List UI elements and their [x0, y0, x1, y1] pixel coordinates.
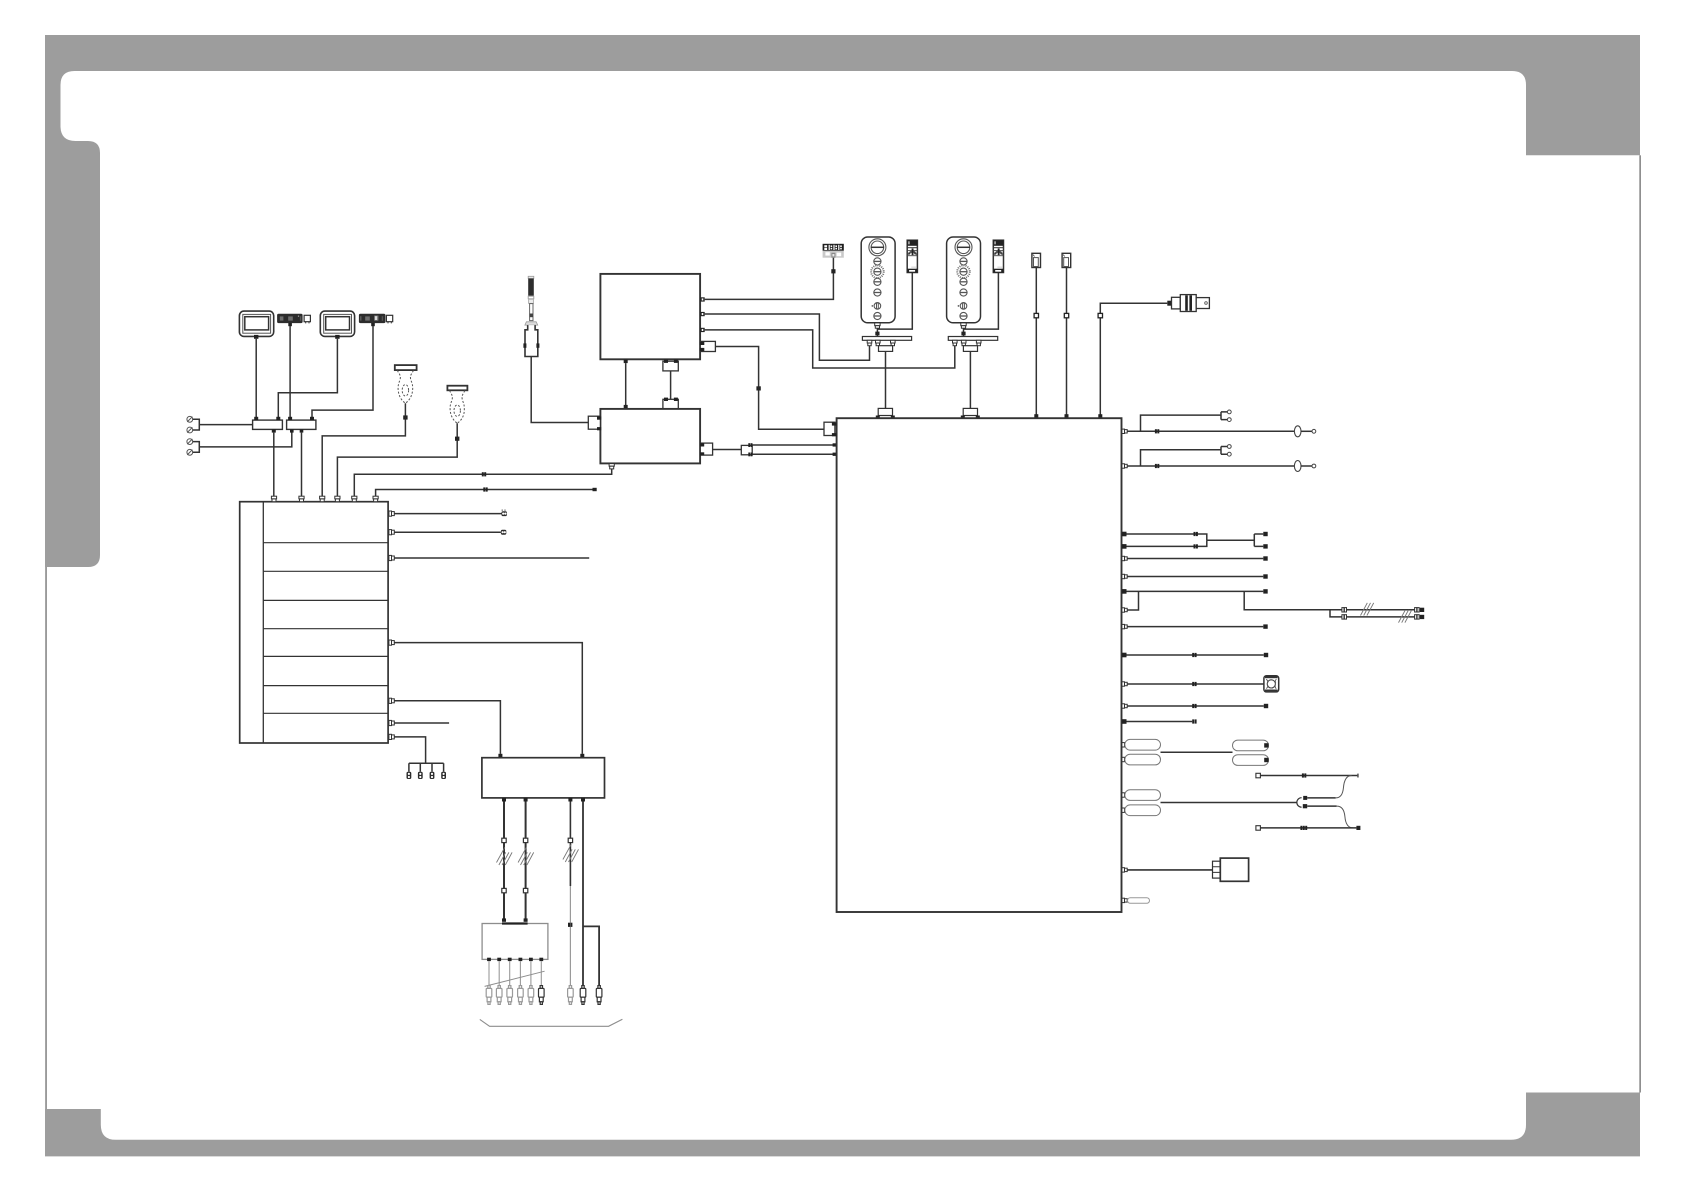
- pin A: [1122, 429, 1127, 433]
- sheath capsule O: [1128, 898, 1150, 904]
- U2 right connector: [700, 443, 713, 455]
- sheath capsule 1d: [1233, 755, 1269, 766]
- connector: [502, 838, 506, 842]
- branch G down to twin leads: [1244, 591, 1342, 609]
- remote bus bar 2: [948, 337, 997, 341]
- wire lamp B end: [1301, 465, 1312, 467]
- pin O: [1122, 898, 1127, 902]
- fan motor: [1264, 676, 1279, 692]
- junction terminal: [875, 332, 879, 336]
- bus 1 terminal 3: [891, 340, 896, 345]
- wire monitor M2 to box A: [278, 339, 337, 418]
- connector lower lead: [1342, 615, 1347, 619]
- wire pin J: [1127, 654, 1264, 656]
- lamp B: [1294, 461, 1301, 472]
- wire between connectors: [670, 371, 672, 399]
- spark plug cap light 3: [507, 986, 513, 1005]
- spark plug cap light 5: [528, 986, 534, 1005]
- spark plug cap light w3: [568, 986, 574, 1005]
- connector: [523, 838, 527, 842]
- wire harness pin to terminal: [394, 513, 501, 515]
- wire box B to harness box pin 2: [301, 433, 303, 497]
- Y-splitter connector: [1297, 776, 1353, 828]
- terminal F: [1263, 574, 1267, 578]
- relay box bottom terminals: [502, 798, 585, 802]
- tuner box top pin terminal: [624, 405, 628, 409]
- bus 1 terminal 2: [876, 340, 881, 345]
- sheath capsule 2a: [1125, 790, 1161, 801]
- connector on wire J: [1192, 653, 1196, 657]
- connector upper lead: [1342, 608, 1347, 612]
- display keypad: [823, 244, 844, 258]
- terminal: [498, 754, 502, 758]
- U1 right connector: [700, 341, 715, 351]
- wire antenna to tuner box 2: [531, 357, 588, 423]
- U2 bottom pin: [609, 464, 614, 469]
- connector on F1 wire: [1034, 313, 1038, 317]
- wire buzzer BZ2 to harness box pin 4: [337, 423, 457, 496]
- relay box: [482, 758, 605, 798]
- wire harness box pin 6 stub: [376, 490, 593, 497]
- terminal F1: [1034, 414, 1038, 418]
- pin I: [1122, 624, 1127, 628]
- terminal sheath 1 upper: [1264, 743, 1268, 747]
- wire pin E: [1127, 558, 1263, 560]
- pin H: [1122, 608, 1127, 612]
- terminal: [502, 918, 506, 921]
- remote control R1: [861, 237, 895, 323]
- pin sheath pair 2 upper pin: [1122, 793, 1125, 797]
- wire lamp A end: [1301, 430, 1312, 432]
- U1 right pin 3: [700, 328, 704, 332]
- R1 bottom stub: [875, 323, 880, 328]
- power module box: [1220, 858, 1248, 881]
- spark plug cap dark 6: [539, 986, 545, 1005]
- bus 1 shorting link: [879, 346, 893, 352]
- pin G: [1122, 589, 1127, 594]
- sheath capsule 1b: [1125, 754, 1161, 765]
- terminal: [524, 918, 528, 921]
- pin F: [1122, 574, 1127, 578]
- wire P1 to box A: [193, 419, 253, 430]
- sensor module F1: [1032, 253, 1041, 267]
- wire harness to relay box top right: [394, 643, 582, 754]
- wire P2 to box B: [193, 432, 292, 452]
- branch wire to fork B: [1141, 450, 1222, 466]
- wire sheath 2: [1161, 802, 1298, 804]
- wire pin M: [1127, 721, 1193, 723]
- bus 2 plug connector: [961, 408, 980, 418]
- sheath capsule 2b: [1125, 805, 1161, 816]
- pin D: [1122, 544, 1127, 549]
- wire U2 bottom to harness box pin 5: [354, 469, 611, 497]
- power module plug: [1213, 861, 1221, 878]
- pin M: [1122, 719, 1127, 724]
- wire R2 to bus bar 2: [963, 328, 965, 336]
- bus 2 terminal 1: [953, 340, 958, 345]
- wire pin F: [1127, 576, 1263, 578]
- terminal sheath 1 lower: [1264, 758, 1268, 762]
- connector on keypad wire: [831, 269, 835, 273]
- pin B: [1122, 464, 1127, 468]
- wire pin B to lamp: [1127, 465, 1294, 467]
- wire U1 connector to main unit left connector: [715, 347, 824, 430]
- wire U1 pin 3 to remote bus 2: [705, 330, 955, 368]
- wire keypad to U1 pin 1: [705, 258, 834, 300]
- bus 1 plug connector: [876, 408, 895, 418]
- pin L: [1122, 704, 1127, 708]
- end connector upper: [1415, 608, 1425, 612]
- wire U2 to inline connector: [713, 449, 742, 451]
- buzzer BZ2: [447, 386, 467, 424]
- spark plug cap light 1: [486, 986, 492, 1005]
- connector on coax wire: [1098, 313, 1102, 317]
- end terminal: [593, 488, 597, 491]
- wire harness pin to terminal: [394, 531, 501, 533]
- terminal rings: [501, 530, 506, 535]
- terminal L: [1264, 704, 1268, 708]
- lamp socket pair P1: [187, 416, 193, 433]
- connector: [502, 888, 506, 892]
- spark plug cap dark 2: [596, 986, 602, 1005]
- ignition wire 1: [503, 802, 505, 922]
- connector on wire A: [1155, 429, 1159, 433]
- junction box B: [287, 417, 316, 433]
- wire coax jack to main unit: [1100, 303, 1167, 415]
- wire D2 to R2 wire: [964, 273, 999, 330]
- branch wire to fork A: [1141, 415, 1222, 431]
- U1 right pin 2: [700, 312, 704, 316]
- inline connector: [741, 443, 752, 456]
- connector on wire L: [1192, 704, 1196, 708]
- long stub wire: [394, 557, 589, 559]
- Y-cable wire 1: [1256, 773, 1359, 778]
- U1 bottom pin: [624, 360, 628, 364]
- bus 2 terminal 2: [961, 340, 966, 345]
- wire bus 2 link to main unit: [969, 351, 971, 408]
- engine bracket: [480, 1019, 623, 1026]
- main unit left connector: [824, 422, 837, 436]
- connector on wire C: [1194, 532, 1198, 536]
- wire sheath 1: [1161, 751, 1233, 753]
- antenna assembly: [523, 276, 539, 356]
- terminal coax: [1098, 414, 1102, 418]
- remote bus bar 1: [862, 337, 911, 341]
- fork B: [1221, 445, 1231, 457]
- hatch marks: [497, 847, 513, 865]
- wire box A to harness box pin 1: [273, 433, 275, 497]
- wire pin N to power module: [1127, 869, 1212, 871]
- harness junction box: [240, 502, 388, 743]
- wire upper lead: [1347, 609, 1417, 611]
- bus 1 terminal 1: [867, 340, 872, 345]
- harness box top pins: [271, 496, 378, 501]
- wire lower lead: [1347, 616, 1417, 618]
- wire sensor bar S2 to box B: [312, 326, 373, 418]
- bus 2 terminal 3: [976, 340, 981, 345]
- lamp A: [1294, 426, 1301, 437]
- wire F1 to main unit: [1035, 268, 1037, 415]
- wire U1 pin 2 to remote bus 1: [705, 314, 870, 360]
- terminal M: [1192, 719, 1196, 723]
- U1 right pin 1: [700, 297, 704, 301]
- wire D1 to R1 wire: [877, 273, 912, 330]
- end terminal ring: [1312, 464, 1316, 468]
- buzzer BZ1: [395, 365, 417, 403]
- terminal: [580, 754, 584, 758]
- pin sheath pair 1 upper pin: [1122, 743, 1125, 747]
- pin K: [1122, 682, 1127, 686]
- lamp socket pair P2: [187, 439, 193, 455]
- connector: [568, 838, 572, 842]
- coax jack J1: [1167, 295, 1209, 312]
- pin sheath pair 2 lower pin: [1122, 808, 1125, 812]
- monitor M1: [239, 311, 273, 339]
- terminal J: [1264, 653, 1268, 657]
- ignition wire 2: [525, 802, 527, 922]
- connector: [523, 888, 527, 892]
- IR sensor bar S1: [277, 314, 310, 326]
- merged wire CD: [1207, 534, 1264, 546]
- plug wire 3: [569, 802, 571, 887]
- spark plug cap dark 1: [580, 986, 586, 1005]
- terminal: [833, 453, 837, 456]
- sheath capsule 1c: [1233, 740, 1269, 751]
- terminal E: [1263, 556, 1267, 560]
- terminal D: [1263, 544, 1267, 548]
- terminal C: [1263, 532, 1267, 536]
- slash over leads: [485, 971, 545, 986]
- connector on wire D: [1194, 544, 1198, 548]
- plug wire 4: [583, 802, 599, 989]
- Y-cable wire 3: [1256, 826, 1361, 831]
- wire F2 to main unit: [1066, 268, 1068, 415]
- end connector lower: [1415, 615, 1425, 619]
- wire pin A to lamp: [1127, 430, 1294, 432]
- terminal I: [1263, 624, 1267, 628]
- branch G to pin H: [1127, 591, 1138, 610]
- connector: [568, 923, 572, 927]
- fuse block: [482, 924, 548, 960]
- pin N: [1122, 868, 1127, 872]
- wire pin K to fan: [1127, 683, 1264, 685]
- control box U1: [600, 274, 700, 359]
- monitor M2: [320, 311, 354, 339]
- U2 left connector: [588, 416, 601, 430]
- hatch marks upper: [1361, 603, 1374, 616]
- wire harness to 4-way comb: [394, 737, 443, 772]
- terminal F2: [1065, 414, 1069, 418]
- wires inline connector to main unit: [753, 445, 834, 454]
- hatch marks lower: [1399, 610, 1412, 623]
- connector on F2 wire: [1064, 313, 1068, 317]
- wire pin G: [1127, 590, 1264, 592]
- terminal rings: [502, 510, 507, 517]
- wire pin L: [1127, 705, 1264, 707]
- IR sensor bar S2: [359, 314, 393, 326]
- pin sheath pair 1 lower pin: [1122, 757, 1125, 761]
- fuse block bottom terminals: [487, 958, 543, 961]
- fuse block lead wires: [489, 961, 541, 986]
- connector on wire: [482, 472, 486, 476]
- bus 2 shorting link: [963, 346, 977, 352]
- comb pin terminals: [407, 772, 447, 779]
- tuner box top connector: [663, 398, 678, 409]
- connector on wire K: [1192, 682, 1196, 686]
- wire monitor M1 to box A: [255, 339, 257, 418]
- stub wire: [394, 722, 449, 724]
- remote side unit D2: [993, 240, 1003, 272]
- tuner box U2: [600, 409, 700, 464]
- spark plug cap light 4: [518, 986, 524, 1005]
- sheath capsule 1a: [1125, 739, 1161, 750]
- wire pin D: [1127, 540, 1207, 546]
- terminal: [833, 443, 837, 446]
- wire buzzer BZ1 to harness box pin 3: [322, 403, 405, 496]
- remote side unit D1: [907, 240, 917, 272]
- pin E: [1122, 556, 1127, 560]
- wire U1 to tuner box: [625, 363, 627, 407]
- fork A: [1221, 410, 1231, 422]
- wire bus 1 link to main unit: [885, 351, 887, 408]
- end terminal ring: [1312, 429, 1316, 433]
- terminal G: [1263, 589, 1267, 593]
- spark plug cap light 2: [496, 986, 502, 1005]
- junction box A: [253, 417, 283, 433]
- pin C: [1122, 532, 1127, 537]
- wire harness to relay box top left: [394, 701, 500, 754]
- wire pin I: [1127, 626, 1263, 628]
- U1 bottom connector: [663, 360, 678, 371]
- harness box right pins: [389, 511, 394, 740]
- connector on BZ2 wire: [455, 437, 459, 441]
- R2 bottom stub: [961, 323, 966, 328]
- junction terminal: [961, 332, 965, 336]
- connector on wire B: [1155, 464, 1159, 468]
- pin J: [1122, 653, 1127, 658]
- wire sensor bar S1 to box B: [289, 326, 291, 418]
- wire pin C: [1127, 534, 1207, 540]
- connector on BZ1 wire: [403, 415, 407, 419]
- twin lead lower branch: [1330, 610, 1342, 617]
- wire R1 to bus bar 1: [876, 328, 878, 336]
- connector on wire: [483, 487, 487, 491]
- connector on wire: [756, 386, 760, 390]
- hatch marks: [563, 844, 579, 862]
- remote control R2: [947, 237, 981, 323]
- main unit: [837, 418, 1122, 912]
- sensor module F2: [1062, 253, 1071, 267]
- hatch marks: [518, 847, 534, 865]
